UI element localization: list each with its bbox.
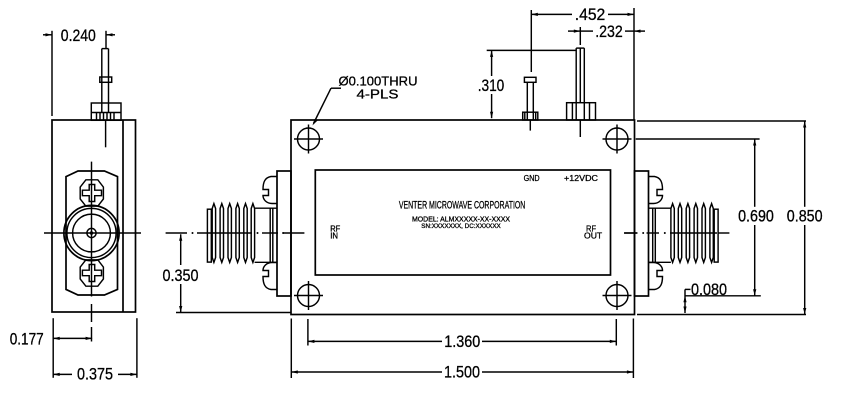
svg-text:0.375: 0.375	[77, 366, 113, 384]
dimension 0.177	[10, 318, 92, 378]
svg-text:SN:XXXXXXX, DC:XXXXXX: SN:XXXXXXX, DC:XXXXXX	[421, 223, 501, 230]
corner hole bottom-right	[603, 281, 632, 310]
SMA connector circles (side view)	[64, 205, 119, 260]
GND pin	[523, 77, 538, 130]
dimension 1.360	[308, 319, 616, 351]
svg-text:4-PLS: 4-PLS	[357, 87, 399, 102]
connector flange octagon (side view)	[66, 171, 118, 295]
flange top tab with slot	[649, 177, 663, 204]
svg-text:OUT: OUT	[584, 230, 603, 240]
dimension 0.375	[53, 318, 137, 383]
dimension .310	[478, 50, 577, 118]
svg-text:1.500: 1.500	[444, 364, 480, 382]
svg-text:.452: .452	[575, 6, 606, 24]
svg-text:0.080: 0.080	[691, 281, 727, 299]
GND pin collar (side view)	[100, 77, 112, 82]
connector centerline (right)	[624, 232, 729, 234]
connector barrel	[255, 208, 277, 262]
corner hole bottom-left	[294, 281, 323, 310]
flange top tab with slot	[263, 177, 277, 204]
flange bottom tab with slot	[649, 263, 663, 290]
pins (side view, overlapping): +12VDC shaft	[102, 49, 109, 113]
svg-text:0.240: 0.240	[61, 27, 96, 45]
svg-text:IN: IN	[330, 230, 338, 240]
horizontal centerline (side view)	[44, 232, 141, 234]
svg-text:GND: GND	[524, 173, 540, 183]
svg-text:VENTER MICROWAVE CORPORATION: VENTER MICROWAVE CORPORATION	[399, 200, 526, 212]
svg-text:+12VDC: +12VDC	[564, 173, 598, 183]
connector threads (teeth)	[671, 204, 713, 263]
svg-text:0.850: 0.850	[787, 208, 823, 226]
pin centerline into body	[105, 120, 107, 147]
body outline (front view)	[291, 120, 635, 315]
dimension 0.240	[43, 27, 115, 116]
svg-text:.310: .310	[478, 77, 505, 95]
svg-text:0.350: 0.350	[163, 267, 199, 285]
lid step line	[122, 120, 124, 312]
pin base block (side view)	[91, 103, 121, 120]
connector tip cap	[207, 209, 211, 262]
top mounting screw head (side view)	[80, 180, 103, 206]
connector tip cap	[714, 209, 718, 262]
corner hole top-right	[603, 125, 632, 154]
centerline tick at body right edge	[624, 232, 637, 234]
dimension 0.080	[683, 281, 727, 313]
dimension 0.350	[163, 234, 292, 312]
dimension 0.690	[636, 139, 774, 296]
dimension 0.850	[637, 121, 823, 315]
vertical centerline (side view)	[91, 162, 93, 297]
connector barrel	[649, 208, 671, 262]
svg-text:.232: .232	[595, 23, 623, 41]
svg-text:0.690: 0.690	[738, 208, 774, 226]
connector flange plate	[635, 171, 649, 296]
+12VDC pin	[567, 48, 596, 137]
corner hole top-left	[294, 125, 323, 154]
dimension .452	[531, 6, 634, 120]
label plate rectangle	[315, 170, 610, 275]
svg-text:0.177: 0.177	[10, 331, 44, 349]
svg-text:1.360: 1.360	[444, 333, 480, 351]
dimension .232	[568, 23, 645, 45]
connector centerline (left)	[166, 232, 285, 234]
connector flange plate	[277, 171, 291, 296]
connector threads (teeth)	[212, 204, 254, 263]
dimension 1.500	[291, 319, 633, 382]
hole callout leader	[312, 88, 341, 125]
flange bottom tab with slot	[263, 263, 277, 290]
centerline tick at body left edge	[283, 232, 304, 234]
body outline (side view)	[52, 120, 136, 312]
bottom mounting screw head (side view)	[80, 260, 103, 286]
